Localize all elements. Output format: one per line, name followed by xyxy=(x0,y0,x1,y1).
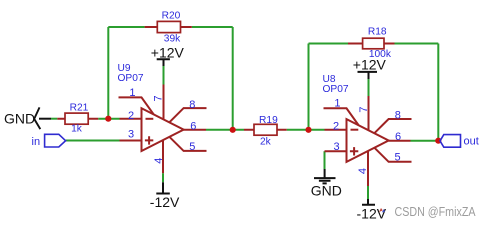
svg-text:out: out xyxy=(464,135,479,147)
svg-text:2: 2 xyxy=(128,110,134,122)
svg-text:2k: 2k xyxy=(260,137,272,148)
svg-text:1: 1 xyxy=(334,98,340,110)
svg-text:2: 2 xyxy=(333,121,339,133)
svg-text:6: 6 xyxy=(190,120,196,132)
svg-text:in: in xyxy=(32,136,41,148)
svg-text:3: 3 xyxy=(333,141,339,153)
svg-text:R20: R20 xyxy=(162,10,181,21)
svg-text:R18: R18 xyxy=(368,27,387,38)
svg-text:4: 4 xyxy=(357,168,369,174)
svg-text:6: 6 xyxy=(395,131,401,143)
svg-text:OP07: OP07 xyxy=(118,73,144,84)
svg-text:R21: R21 xyxy=(70,103,89,114)
svg-text:GND: GND xyxy=(4,110,35,126)
svg-text:4: 4 xyxy=(153,158,165,164)
svg-text:+12V: +12V xyxy=(151,45,185,61)
svg-text:-12V: -12V xyxy=(357,206,387,222)
svg-text:3: 3 xyxy=(128,129,134,141)
svg-text:R19: R19 xyxy=(259,115,278,126)
svg-text:CSDN @FmixZA: CSDN @FmixZA xyxy=(395,205,477,219)
svg-text:5: 5 xyxy=(394,152,400,164)
svg-text:8: 8 xyxy=(395,109,401,121)
svg-text:+12V: +12V xyxy=(353,57,387,73)
svg-text:OP07: OP07 xyxy=(323,84,349,95)
svg-text:39k: 39k xyxy=(164,34,181,45)
svg-text:-12V: -12V xyxy=(150,194,180,210)
svg-text:7: 7 xyxy=(153,95,165,101)
svg-text:1: 1 xyxy=(129,87,135,99)
svg-text:GND: GND xyxy=(311,183,342,199)
svg-text:1k: 1k xyxy=(71,124,83,135)
svg-text:8: 8 xyxy=(189,99,195,111)
svg-text:7: 7 xyxy=(358,106,370,112)
svg-text:5: 5 xyxy=(189,141,195,153)
